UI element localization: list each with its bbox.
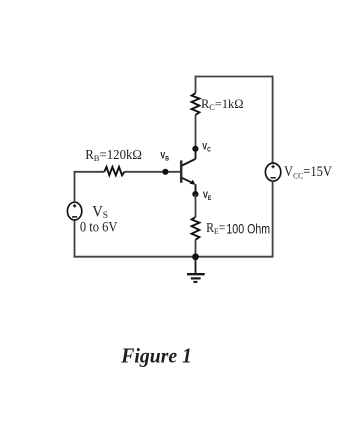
- svg-text:0 to 6V: 0 to 6V: [80, 220, 118, 236]
- svg-text:100 Ohm: 100 Ohm: [226, 222, 270, 237]
- svg-text:Figure 1: Figure 1: [120, 346, 192, 368]
- svg-text:RE=: RE=: [206, 220, 225, 236]
- wire: bottom rail: [74, 256, 274, 258]
- svg-text:RC=1kΩ: RC=1kΩ: [201, 97, 244, 112]
- svg-text:VS: VS: [92, 203, 108, 221]
- transistor Q1: [181, 149, 195, 194]
- resistor RC: [192, 93, 200, 115]
- svg-text:VE: VE: [203, 190, 212, 202]
- wire: base wire right segment: [124, 171, 180, 173]
- label RE=100 Ohm: [206, 220, 270, 237]
- resistor RE: [192, 217, 200, 240]
- wire: base wire left segment: [74, 171, 105, 173]
- wire: emitter lead (VE node to RE top): [195, 194, 197, 217]
- wire: ground stem: [195, 257, 197, 274]
- label 0 to 6V: [80, 220, 118, 236]
- ground: [187, 274, 205, 282]
- wire: left rail lower (VS bottom lead): [74, 220, 76, 258]
- label RC=1kΩ: [201, 97, 244, 112]
- node: emitter-ground junction dot: [192, 253, 199, 260]
- node VC dot: [192, 146, 198, 152]
- resistor RB: [104, 167, 124, 175]
- wire: right rail upper (VCC top lead): [272, 76, 274, 164]
- wire: RE bottom lead: [195, 240, 197, 257]
- node VB junction dot: [162, 169, 168, 175]
- svg-text:VC: VC: [202, 142, 211, 154]
- caption Figure 1: [120, 346, 192, 368]
- label VS: [92, 203, 108, 221]
- svg-text:RB=120kΩ: RB=120kΩ: [85, 147, 142, 163]
- label VB: [160, 151, 169, 163]
- svg-text:VB: VB: [160, 151, 169, 163]
- voltage source VCC: [265, 163, 280, 181]
- label VE: [203, 190, 212, 202]
- wire: RC top lead: [195, 76, 197, 94]
- svg-text:VCC=15V: VCC=15V: [284, 164, 332, 180]
- label VCC=15V: [284, 164, 332, 180]
- node VE dot: [192, 191, 198, 197]
- label RB=120kΩ: [85, 147, 142, 163]
- voltage source VS: [67, 202, 81, 220]
- wire: top rail: [196, 76, 273, 78]
- label VC: [202, 142, 211, 154]
- wire: left rail upper (VS top lead): [74, 172, 76, 203]
- wire: collector lead (RC bottom to VC node): [195, 115, 197, 149]
- wire: right rail lower (VCC bottom lead): [272, 181, 274, 258]
